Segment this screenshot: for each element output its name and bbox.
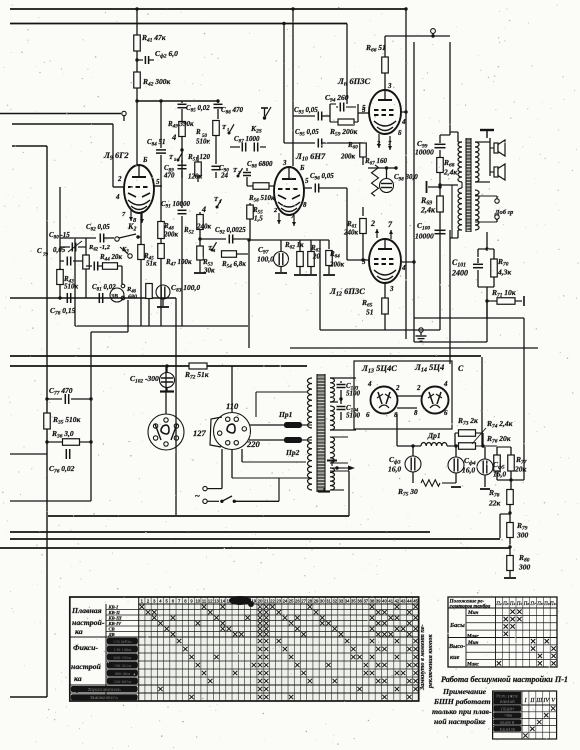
svg-text:КВ-III: КВ-III bbox=[108, 616, 122, 621]
svg-text:39: 39 bbox=[376, 599, 381, 604]
resistor R62a bbox=[83, 255, 90, 269]
svg-text:510к: 510к bbox=[64, 283, 79, 291]
svg-text:16,0: 16,0 bbox=[388, 465, 401, 474]
resistor R47 bbox=[158, 244, 165, 259]
wire bbox=[497, 479, 524, 481]
speaker Гр2 bbox=[490, 171, 494, 173]
resistor R50 bbox=[217, 109, 219, 119]
tube Л12 6П3С bbox=[369, 239, 401, 283]
svg-text:11: 11 bbox=[202, 599, 207, 604]
svg-text:R73 2к: R73 2к bbox=[457, 416, 478, 427]
svg-text:5: 5 bbox=[362, 258, 366, 266]
svg-text:ной настройке: ной настройке bbox=[434, 717, 486, 726]
svg-text:4: 4 bbox=[443, 380, 448, 388]
switch K2S bbox=[261, 107, 268, 109]
wire bottom bus 1 bbox=[48, 515, 349, 517]
plug socket 110/220 bbox=[214, 413, 251, 450]
tube Л10 6Н7 bbox=[274, 167, 304, 215]
svg-text:44: 44 bbox=[407, 599, 412, 604]
svg-text:2: 2 bbox=[370, 219, 375, 228]
svg-text:C83 100,0: C83 100,0 bbox=[171, 283, 200, 294]
svg-text:~: ~ bbox=[195, 491, 200, 501]
svg-text:34: 34 bbox=[345, 599, 350, 604]
wire bbox=[136, 51, 138, 72]
svg-text:Л10 6Н7: Л10 6Н7 bbox=[295, 151, 326, 163]
wire rail x414 bbox=[413, 42, 415, 342]
svg-text:100,0: 100,0 bbox=[257, 255, 274, 264]
wire bbox=[207, 488, 222, 490]
speaker Гр1 bbox=[490, 147, 494, 149]
svg-text:300: 300 bbox=[518, 563, 531, 572]
svg-text:20к: 20к bbox=[514, 465, 527, 474]
svg-text:Замкнуто в момент пе-: Замкнуто в момент пе- bbox=[419, 624, 426, 691]
svg-text:4: 4 bbox=[401, 118, 406, 126]
svg-text:2400: 2400 bbox=[451, 269, 468, 278]
capacitor C95 bbox=[284, 142, 315, 144]
svg-text:4: 4 bbox=[401, 264, 406, 272]
capacitor C98 electrolytic bbox=[380, 179, 394, 193]
resistor R36 bbox=[63, 439, 80, 446]
resistor R77 bbox=[510, 447, 512, 455]
svg-text:5: 5 bbox=[362, 106, 366, 114]
capacitor Cф5 electrolytic bbox=[477, 459, 493, 475]
svg-text:79: 79 bbox=[43, 253, 49, 258]
svg-text:3: 3 bbox=[387, 82, 392, 90]
paper speckles bbox=[369, 19, 372, 22]
resistor R55 bbox=[249, 203, 251, 206]
svg-text:5100: 5100 bbox=[346, 412, 361, 420]
svg-text:ка: ка bbox=[74, 674, 82, 683]
svg-text:2: 2 bbox=[117, 175, 122, 183]
resistor R74 bbox=[459, 443, 476, 450]
svg-text:5100: 5100 bbox=[346, 390, 361, 398]
svg-text:300: 300 bbox=[516, 531, 529, 540]
tube Л14 5Ц4 bbox=[422, 387, 449, 414]
wire bbox=[449, 230, 451, 364]
svg-text:Реле реле: Реле реле bbox=[496, 694, 518, 699]
svg-text:R42 300к: R42 300к bbox=[142, 77, 171, 88]
resistor R35 bbox=[44, 413, 51, 429]
resistor R73 bbox=[459, 430, 476, 437]
capacitor C92 bbox=[200, 238, 226, 240]
resistor R75 zigzag bbox=[421, 480, 440, 486]
phono jack ЗВ bbox=[110, 288, 124, 302]
table switch positions frame bbox=[70, 597, 419, 701]
svg-text:R: R bbox=[195, 128, 201, 136]
wire to grid cap Л9 bbox=[136, 88, 138, 166]
transformer Tr2 primary bbox=[458, 142, 462, 182]
svg-text:3: 3 bbox=[282, 159, 287, 167]
svg-text:51: 51 bbox=[366, 308, 374, 317]
wire AVC line to C-chain bbox=[12, 145, 47, 147]
table background tint bbox=[139, 597, 419, 701]
svg-text:8: 8 bbox=[303, 201, 307, 209]
wire socket down legs bbox=[221, 449, 223, 489]
svg-text:Макс: Макс bbox=[466, 662, 480, 668]
svg-text:24: 24 bbox=[283, 599, 288, 604]
ground R64 bbox=[323, 274, 335, 276]
resistor R79 bbox=[509, 513, 511, 523]
wire rail x86 bbox=[85, 238, 87, 298]
switch T1 bbox=[228, 132, 231, 135]
resistor R56 grid Л10 bbox=[253, 183, 269, 190]
wire grid line Л12 bbox=[346, 188, 348, 260]
svg-text:680: 680 bbox=[128, 295, 137, 301]
capacitor C97 electrolytic bbox=[274, 252, 289, 267]
resistor R43 bbox=[59, 268, 61, 269]
wire screen rail bbox=[405, 9, 407, 339]
svg-text:5: 5 bbox=[156, 178, 160, 186]
ground Cф caps bbox=[484, 475, 486, 487]
svg-text:БШН III: БШН III bbox=[500, 727, 515, 732]
svg-text:1: 1 bbox=[227, 127, 229, 132]
table column grid bbox=[144, 597, 146, 701]
socket bracket bbox=[210, 417, 222, 447]
svg-text:настрой-: настрой- bbox=[72, 618, 105, 627]
svg-text:175-М43м: 175-М43м bbox=[113, 639, 132, 644]
relay table rows bbox=[493, 711, 557, 713]
svg-text:20: 20 bbox=[258, 599, 263, 604]
wire heater feed arrow bbox=[335, 466, 338, 469]
svg-text:C78 0,15: C78 0,15 bbox=[50, 306, 76, 317]
wire AF line bbox=[10, 297, 176, 299]
resistor R71 bbox=[497, 298, 515, 305]
resistor R52 bbox=[199, 212, 201, 214]
switch K3 bbox=[128, 254, 132, 258]
switch K2 bbox=[115, 237, 119, 241]
resistor R78 bbox=[510, 480, 512, 489]
svg-text:Др1: Др1 bbox=[427, 431, 441, 440]
svg-text:настрой: настрой bbox=[71, 662, 102, 671]
wire bbox=[481, 357, 483, 447]
svg-text:R36 3,0: R36 3,0 bbox=[51, 429, 74, 440]
resistor R62 bbox=[299, 240, 301, 251]
switch T3 bbox=[216, 206, 219, 209]
ground C97 bbox=[280, 267, 282, 272]
wire socket to bus bbox=[165, 366, 167, 414]
resistor R46 bbox=[146, 284, 153, 299]
resistor R65 bbox=[384, 283, 386, 298]
table tone control frame bbox=[448, 597, 557, 667]
wire bbox=[454, 433, 456, 446]
svg-text:315-554м: 315-554м bbox=[114, 679, 132, 684]
node B+ terminal bbox=[431, 29, 436, 34]
svg-text:4: 4 bbox=[171, 132, 176, 142]
capacitor C91 bbox=[181, 150, 183, 208]
ground R62 bbox=[294, 274, 306, 276]
transformer Tr1 primary bbox=[308, 378, 313, 428]
svg-text:4: 4 bbox=[367, 380, 372, 388]
capacitor C77 bbox=[47, 398, 62, 400]
svg-text:ЛБШН: ЛБШН bbox=[501, 706, 514, 711]
wire mid return bbox=[75, 325, 248, 327]
capacitor C89 bbox=[181, 160, 183, 163]
svg-text:42: 42 bbox=[395, 599, 400, 604]
svg-text:30: 30 bbox=[320, 599, 325, 604]
capacitor Cф3 electrolytic bbox=[405, 456, 421, 472]
capacitor Cф2 bbox=[135, 58, 138, 61]
capacitor C85 bbox=[181, 101, 183, 103]
svg-text:кие: кие bbox=[450, 654, 460, 661]
wire bbox=[215, 136, 217, 160]
svg-text:ЗВ: ЗВ bbox=[110, 294, 118, 300]
ground speaker bbox=[480, 129, 494, 131]
capacitor C81 bbox=[86, 265, 92, 267]
resistor R69 bbox=[437, 196, 444, 212]
transformer Tr1 core bbox=[317, 374, 325, 492]
svg-text:платой: платой bbox=[500, 698, 515, 704]
switch T5 bbox=[177, 159, 180, 162]
transformer Tr2 core bbox=[466, 138, 471, 232]
svg-text:25: 25 bbox=[289, 599, 294, 604]
ground C83 bbox=[157, 306, 169, 308]
svg-text:Фикси-: Фикси- bbox=[73, 643, 98, 652]
svg-text:Л9 6Г2: Л9 6Г2 bbox=[103, 150, 129, 162]
resistor R80 bbox=[509, 547, 511, 556]
svg-text:III: III bbox=[535, 698, 543, 704]
wire x176 rail bbox=[175, 298, 177, 515]
wire anode supply Л9 bbox=[136, 9, 138, 35]
capacitor C86 bbox=[216, 99, 219, 102]
capacitor C78 bbox=[66, 293, 68, 303]
svg-text:0,05: 0,05 bbox=[53, 246, 66, 254]
resistor R41 bbox=[134, 35, 141, 51]
wire heater bus 1 bbox=[10, 355, 481, 357]
svg-text:13: 13 bbox=[214, 599, 219, 604]
svg-text:R41 47к: R41 47к bbox=[141, 33, 166, 44]
svg-text:R71 10к: R71 10к bbox=[491, 288, 516, 299]
wire speaker loop bbox=[475, 141, 490, 143]
capacitor C82 bbox=[60, 237, 96, 239]
table relay frame bbox=[493, 691, 557, 739]
resistor R67 zigzag bbox=[372, 165, 379, 196]
choke Др1 bbox=[397, 445, 421, 447]
svg-text:23: 23 bbox=[276, 599, 281, 604]
svg-text:14: 14 bbox=[220, 599, 225, 604]
resistor R68 bbox=[439, 150, 441, 157]
wire plate lead bbox=[486, 232, 488, 249]
svg-text:КВ-I: КВ-I bbox=[108, 605, 119, 610]
wire B+ bus top bbox=[10, 8, 405, 10]
resistor R72 bbox=[189, 363, 207, 369]
ground R53 bbox=[194, 272, 206, 274]
svg-text:4: 4 bbox=[115, 193, 120, 201]
wire bbox=[290, 347, 538, 349]
node terminal stub bbox=[438, 185, 441, 188]
svg-text:200к: 200к bbox=[163, 231, 179, 239]
svg-text:145-185м: 145-185м bbox=[114, 647, 132, 652]
resistor R63 bbox=[310, 240, 312, 251]
wire bus2 drop to C94 bbox=[346, 24, 348, 105]
wire bottom bus 2 bbox=[10, 531, 430, 533]
svg-text:Примечание: Примечание bbox=[442, 687, 487, 696]
svg-text:Лп 6П3С: Лп 6П3С bbox=[337, 76, 370, 88]
svg-text:ка: ка bbox=[75, 627, 83, 636]
svg-text:R74 2,4к: R74 2,4к bbox=[486, 419, 513, 430]
svg-text:10000: 10000 bbox=[415, 148, 434, 157]
wire Л9 anode right bbox=[154, 185, 162, 187]
svg-text:Мин: Мин bbox=[467, 640, 478, 646]
capacitor C104 bbox=[340, 399, 342, 404]
relay table header dark bbox=[493, 692, 521, 704]
wire bbox=[449, 42, 451, 135]
wire 110 tap bbox=[255, 392, 257, 417]
capacitor C90 bbox=[215, 160, 217, 164]
svg-text:120к: 120к bbox=[188, 173, 203, 181]
wire plate load bus bbox=[137, 100, 218, 102]
svg-text:4,3к: 4,3к bbox=[497, 268, 511, 277]
wire bus 2 bbox=[10, 23, 347, 25]
svg-text:22к: 22к bbox=[488, 499, 501, 508]
capacitor C87 bbox=[230, 146, 240, 148]
capacitor C99 bbox=[435, 143, 446, 145]
wire bottom bus 3 bbox=[10, 538, 500, 540]
svg-text:510к: 510к bbox=[196, 138, 211, 146]
capacitor C103 bbox=[340, 381, 342, 383]
svg-text:10: 10 bbox=[195, 599, 200, 604]
svg-text:43: 43 bbox=[401, 599, 406, 604]
svg-text:2: 2 bbox=[416, 384, 421, 392]
resistor R49 bbox=[181, 109, 183, 121]
svg-text:Басы: Басы bbox=[449, 622, 465, 629]
svg-text:R59 200к: R59 200к bbox=[329, 127, 358, 138]
svg-text:415-301м: 415-301м bbox=[114, 663, 132, 668]
svg-text:C: C bbox=[37, 247, 42, 255]
heater arrows Л11 bbox=[378, 134, 380, 148]
wire switch riser bbox=[278, 478, 280, 501]
capacitor Cф4 electrolytic bbox=[448, 457, 464, 473]
svg-text:4: 4 bbox=[201, 205, 206, 214]
svg-text:27: 27 bbox=[301, 599, 306, 604]
heater arrows Л10 bbox=[278, 213, 280, 224]
svg-text:2: 2 bbox=[395, 384, 400, 392]
capacitor C76 bbox=[65, 449, 67, 459]
table header smudge bbox=[229, 596, 251, 605]
fuse Пр2 bbox=[249, 439, 284, 441]
svg-text:БШН работает: БШН работает bbox=[433, 697, 491, 706]
switch T2 bbox=[237, 175, 240, 178]
svg-text:590-50м: 590-50м bbox=[115, 671, 130, 676]
svg-text:240к: 240к bbox=[343, 229, 359, 237]
svg-text:Л13 5Ц4С: Л13 5Ц4С bbox=[361, 363, 397, 375]
svg-text:Плавная: Плавная bbox=[71, 606, 102, 615]
svg-text:240к: 240к bbox=[196, 223, 212, 231]
transformer Tr1 primary taps bbox=[307, 424, 312, 426]
svg-text:Cф2 6,0: Cф2 6,0 bbox=[155, 49, 178, 60]
svg-text:гуляторов тембра: гуляторов тембра bbox=[450, 605, 491, 610]
table row lines bbox=[106, 609, 419, 611]
svg-text:51к: 51к bbox=[146, 260, 157, 268]
svg-text:Б: Б bbox=[299, 164, 305, 172]
node Доб гр terminals bbox=[495, 199, 499, 203]
svg-text:10000: 10000 bbox=[415, 232, 434, 241]
svg-text:R76 20к: R76 20к bbox=[486, 434, 511, 445]
wire vertical rail x47 bbox=[46, 146, 48, 697]
svg-text:32: 32 bbox=[332, 599, 337, 604]
ground R80 bbox=[504, 577, 516, 579]
svg-text:20: 20 bbox=[312, 253, 321, 261]
resistor R51 bbox=[197, 155, 199, 162]
tube Л11 6П3С bbox=[369, 90, 401, 134]
svg-text:6: 6 bbox=[444, 409, 448, 417]
switch mains bbox=[207, 500, 219, 502]
wire x91 rail bbox=[90, 332, 92, 501]
svg-text:только при плав-: только при плав- bbox=[432, 707, 492, 716]
svg-text:37: 37 bbox=[363, 599, 368, 604]
ground transformer filament bbox=[318, 490, 330, 492]
wire cathode return bbox=[320, 329, 440, 331]
wire rails from bus bbox=[283, 24, 285, 144]
svg-text:38: 38 bbox=[370, 599, 375, 604]
resistor R60 bbox=[352, 142, 363, 144]
ground terminal bbox=[419, 328, 423, 332]
switch T4 bbox=[211, 249, 214, 252]
svg-text:470: 470 bbox=[163, 172, 175, 180]
relay table x marks bbox=[551, 706, 555, 710]
resistor R64 bbox=[328, 240, 330, 249]
capacitor C96 bbox=[304, 187, 312, 189]
svg-text:35: 35 bbox=[351, 599, 356, 604]
wire rail x60 bbox=[59, 187, 61, 298]
svg-text:8: 8 bbox=[398, 129, 402, 137]
svg-text:36: 36 bbox=[357, 599, 362, 604]
svg-text:R72 51к: R72 51к bbox=[184, 370, 209, 381]
svg-text:КВ-IV: КВ-IV bbox=[108, 621, 122, 626]
tone table x marks bbox=[510, 609, 514, 613]
resistor R42 bbox=[134, 72, 141, 88]
svg-text:Мин: Мин bbox=[467, 610, 478, 616]
svg-text:26: 26 bbox=[295, 599, 300, 604]
svg-text:ДВ: ДВ bbox=[108, 632, 115, 637]
capacitor C80 trimmer bbox=[60, 246, 70, 248]
svg-text:8: 8 bbox=[414, 409, 418, 417]
wire cathode bus bbox=[249, 239, 329, 241]
svg-text:6: 6 bbox=[366, 411, 370, 419]
voltage selector socket 127 bbox=[148, 414, 184, 450]
wire left stub 2 bbox=[10, 500, 91, 502]
svg-text:R35 510к: R35 510к bbox=[52, 415, 81, 426]
svg-text:200к: 200к bbox=[329, 261, 345, 269]
resistor R53 bbox=[199, 239, 201, 246]
svg-text:33: 33 bbox=[339, 599, 344, 604]
svg-text:29: 29 bbox=[314, 599, 319, 604]
capacitor C101 parallel R70 bbox=[485, 247, 488, 250]
svg-text:R75 30: R75 30 bbox=[397, 487, 418, 498]
svg-text:Л12 6П3С: Л12 6П3С bbox=[329, 286, 365, 298]
svg-text:реключения кнопок: реключения кнопок bbox=[427, 633, 434, 689]
transformer Tr1 secondary bbox=[330, 378, 335, 402]
svg-text:31: 31 bbox=[326, 599, 331, 604]
resistor R45 cathode Л9 bbox=[140, 213, 142, 244]
contact bbox=[121, 284, 125, 288]
resistor R76 bbox=[496, 447, 498, 455]
table x marks bbox=[370, 639, 374, 643]
svg-text:+ЧН: +ЧН bbox=[503, 713, 512, 718]
svg-text:200к: 200к bbox=[340, 153, 356, 161]
svg-text:5: 5 bbox=[305, 177, 309, 185]
svg-text:Б: Б bbox=[142, 156, 148, 164]
svg-text:16,0: 16,0 bbox=[493, 470, 506, 479]
wire antenna line bbox=[0, 113, 121, 115]
svg-text:C102 -300: C102 -300 bbox=[130, 374, 159, 385]
resistor R48 bbox=[160, 186, 162, 222]
wire x47 drop hook bbox=[10, 696, 47, 698]
transformer Tr2 secondary bbox=[475, 142, 479, 182]
wire bottom bus 4 bbox=[0, 547, 510, 549]
node mains terminals bbox=[203, 486, 207, 490]
wire bbox=[500, 513, 510, 515]
capacitor C100 bbox=[435, 229, 446, 231]
